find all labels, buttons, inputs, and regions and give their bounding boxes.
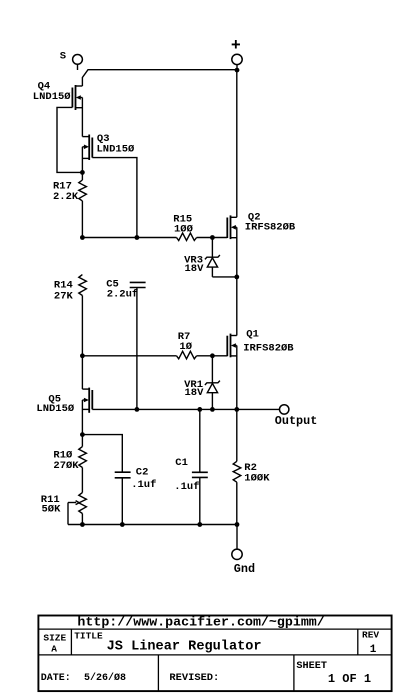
svg-text:A: A xyxy=(51,644,57,655)
transistor Q5 xyxy=(82,356,92,435)
svg-text:LND15Ø: LND15Ø xyxy=(33,91,72,103)
junction right rail / output xyxy=(234,407,239,412)
svg-text:C2: C2 xyxy=(136,466,149,478)
svg-text:.1uf: .1uf xyxy=(131,479,156,491)
svg-text:5/26/Ø8: 5/26/Ø8 xyxy=(84,672,126,684)
R11 wiper arrow xyxy=(68,501,79,525)
junction left rail / R15 wire xyxy=(80,235,85,240)
resistor R10 xyxy=(79,435,87,493)
junction left rail / R7 wire xyxy=(80,353,85,358)
zener diode VR3 xyxy=(205,238,237,277)
svg-text:IRFS82ØB: IRFS82ØB xyxy=(245,222,296,234)
terminal Gnd xyxy=(232,549,242,559)
junction C1 bottom xyxy=(197,522,202,527)
svg-text:http://www.pacifier.com/~gpimm: http://www.pacifier.com/~gpimm/ xyxy=(77,614,324,629)
junction Gnd rail xyxy=(235,522,240,527)
junction C1 top / output xyxy=(197,407,202,412)
potentiometer R11 xyxy=(79,493,87,525)
wire Q5 source to C2 xyxy=(82,435,122,473)
svg-text:5ØK: 5ØK xyxy=(42,504,62,516)
wire Gnd stub xyxy=(236,525,238,550)
wire output line xyxy=(92,408,279,410)
junction C2 bottom xyxy=(120,522,125,527)
svg-text:C1: C1 xyxy=(175,457,188,469)
junction VR3 anode / right rail xyxy=(234,275,239,280)
junction VR1 anode / output xyxy=(210,407,215,412)
junction top-right xyxy=(235,68,240,73)
wire Q3 gate to C5 column xyxy=(92,158,137,238)
terminal Output xyxy=(280,405,289,414)
transistor Q2 xyxy=(227,215,237,239)
terminal S xyxy=(73,55,83,71)
resistor R17 xyxy=(79,172,87,237)
svg-text:27ØK: 27ØK xyxy=(53,460,79,472)
capacitor C1 xyxy=(192,409,208,524)
svg-text:1ØØK: 1ØØK xyxy=(244,473,270,485)
svg-text:DATE:: DATE: xyxy=(41,673,71,684)
wire bottom rail xyxy=(68,524,237,526)
transistor Q3 xyxy=(82,135,92,173)
resistor R2 xyxy=(233,409,241,524)
svg-text:SHEET: SHEET xyxy=(296,661,327,672)
resistor R14 xyxy=(79,275,87,356)
junction Q5 source / C2 wire xyxy=(80,432,85,437)
junction VR3 top xyxy=(210,235,215,240)
title block frame xyxy=(38,616,393,693)
svg-text:LND15Ø: LND15Ø xyxy=(36,403,75,415)
svg-text:REV: REV xyxy=(362,630,379,641)
svg-text:1ØØ: 1ØØ xyxy=(174,224,194,236)
svg-text:27K: 27K xyxy=(54,290,74,302)
svg-text:18V: 18V xyxy=(185,387,205,399)
svg-text:IRFS82ØB: IRFS82ØB xyxy=(243,343,294,355)
svg-text:TITLE: TITLE xyxy=(74,630,103,641)
wire R7 bus y=355.8 xyxy=(82,355,176,357)
svg-text:SIZE: SIZE xyxy=(43,633,66,644)
wire Q4 gate wrap to source node xyxy=(57,107,82,172)
resistor R7 xyxy=(177,351,228,359)
svg-text:1: 1 xyxy=(370,644,377,656)
wire right rail upper xyxy=(236,70,238,217)
junction C5 bottom / output xyxy=(135,407,140,412)
svg-text:18V: 18V xyxy=(185,263,205,275)
svg-text:2.2uf: 2.2uf xyxy=(107,289,139,301)
svg-text:1 OF 1: 1 OF 1 xyxy=(328,672,371,686)
junction Q4 gate / R17 top xyxy=(80,170,85,175)
svg-text:.1uf: .1uf xyxy=(174,481,199,493)
transistor Q1 xyxy=(227,334,237,358)
svg-text:S: S xyxy=(60,51,66,63)
transistor Q4 xyxy=(72,85,82,137)
wire top rail from Q4 drain to + junction xyxy=(82,70,237,86)
junction VR1 top xyxy=(210,353,215,358)
junction C5 top xyxy=(135,235,140,240)
resistor R15 xyxy=(177,233,228,241)
wire gate bus y=237.5 xyxy=(82,237,176,239)
svg-text:1Ø: 1Ø xyxy=(179,341,192,353)
svg-text:LND15Ø: LND15Ø xyxy=(97,143,136,155)
capacitor C2 xyxy=(115,472,131,524)
svg-text:REVISED:: REVISED: xyxy=(169,672,219,684)
terminal + xyxy=(232,54,242,70)
svg-text:Output: Output xyxy=(275,414,317,428)
svg-text:Gnd: Gnd xyxy=(234,562,255,576)
wire right rail Q1 source to output line xyxy=(236,346,238,410)
svg-text:+: + xyxy=(231,36,241,55)
zener diode VR1 xyxy=(205,356,220,410)
capacitor C5 xyxy=(130,282,146,409)
svg-text:2.2K: 2.2K xyxy=(53,191,79,203)
svg-text:Q1: Q1 xyxy=(246,329,259,341)
svg-text:JS Linear Regulator: JS Linear Regulator xyxy=(107,639,262,654)
wire right rail Q2 source to Q1 drain xyxy=(236,227,238,335)
junction R11 bottom xyxy=(80,522,85,527)
